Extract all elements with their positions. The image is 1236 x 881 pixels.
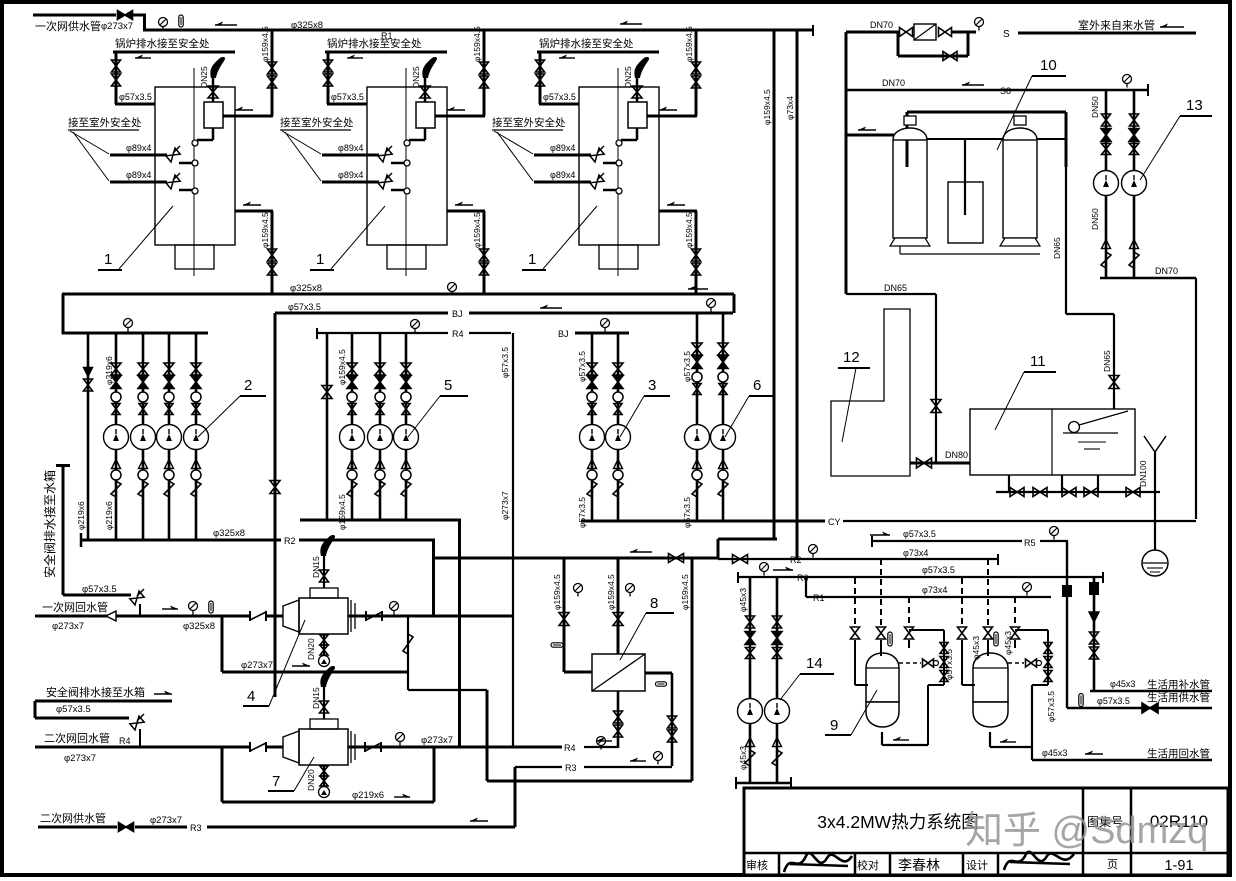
boiler 1 safety valve DN25 bowtie <box>632 86 642 98</box>
return header φ325x8 (row B) <box>62 293 734 296</box>
boiler 1 blowdown valve upper <box>112 60 121 72</box>
boiler 1 blowdown flow arrow <box>347 57 363 59</box>
boiler 1 node relief lower <box>192 188 198 194</box>
gauge on row B <box>448 283 457 292</box>
start elbow R1 <box>805 577 807 597</box>
svg-text:φ159x4.5: φ159x4.5 <box>684 212 694 248</box>
jet pump unit 4 DN15 valve <box>320 570 329 582</box>
pump column inlet valve small <box>112 404 120 415</box>
svg-text:φ45x3: φ45x3 <box>1003 631 1013 655</box>
boiler 1 safety valve DN25 bowtie <box>420 86 430 98</box>
pump column ball valve <box>718 372 728 382</box>
tank 9B dome base line <box>973 667 1008 669</box>
discharge header R2 continues <box>299 539 435 542</box>
boiler 1 safety discharge flame flag <box>210 57 225 78</box>
soft water pump 13-2 column <box>1133 90 1136 278</box>
boiler 1 relief outlet pipe φ89x4 upper <box>534 154 591 157</box>
row R5 <box>872 540 1022 542</box>
pump outlet angle relief <box>191 481 201 497</box>
binding tick marks on left edge <box>0 8 4 28</box>
row R2 to softened water tanks <box>718 558 998 560</box>
boiler 1 downcomer valve upper <box>268 249 277 261</box>
softener inner manifold <box>907 138 1066 140</box>
pipe 一次网回水管 row <box>35 615 249 618</box>
row 539 from long vertical <box>718 538 777 541</box>
svg-text:φ159x4.5: φ159x4.5 <box>762 89 772 125</box>
unit 4 outlet pipe <box>348 615 513 618</box>
jet pump unit 7 DN20 drain <box>323 765 325 787</box>
pump outlet angle relief <box>164 481 174 497</box>
boiler 1 lower outlet arrow <box>667 204 685 206</box>
boiler 1 relief outlet pipe φ89x4 upper <box>322 154 379 157</box>
header CY make-up discharge <box>581 520 825 523</box>
boiler 1 blowdown flow arrow <box>559 57 575 59</box>
pump group 2 suction header <box>62 332 208 335</box>
svg-text:8: 8 <box>650 595 658 612</box>
svg-text:φ159x4.5: φ159x4.5 <box>260 26 270 62</box>
pump column inlet valve small <box>376 404 384 415</box>
svg-text:φ159x4.5: φ159x4.5 <box>606 574 616 610</box>
row to fill riser <box>1066 313 1114 315</box>
tank 9A right bypass loop <box>909 629 944 631</box>
pump column pipe <box>617 333 620 521</box>
boiler 1 node relief upper <box>404 160 410 166</box>
svg-text:DN50: DN50 <box>1090 208 1100 230</box>
flow arrow row 558 <box>630 551 652 553</box>
boiler 1 steam outlet pipe to riser <box>435 115 485 118</box>
reducer box with diagonal <box>914 24 936 40</box>
boiler 1 node on centerline upper <box>192 140 198 146</box>
pump column ball valve <box>191 392 201 402</box>
pump <box>157 425 182 450</box>
tank group 9 drop columns (dashed) from headers <box>854 578 856 625</box>
row DN80 to tank 11 <box>910 462 970 465</box>
boiler 1 blowdown valve lower <box>536 74 545 86</box>
pump outlet cone <box>588 460 597 469</box>
pipe 生活用回水管 <box>1032 759 1212 762</box>
svg-text:φ57x3.5: φ57x3.5 <box>331 92 364 102</box>
boiler 1 drum valve box <box>204 102 223 128</box>
pump outlet ball check <box>111 470 121 480</box>
boiler 1 downcomer valve lower <box>692 263 701 275</box>
long vertical pipe φ73x4 from header R1 <box>796 30 799 559</box>
boiler 1 outlet flow arrow <box>659 109 677 111</box>
boiler 1 blowdown pipe top <box>113 51 235 54</box>
pump <box>394 425 419 450</box>
boiler 1 blowdown flow arrow <box>135 57 151 59</box>
row 690 <box>408 689 487 691</box>
pump column ball valve <box>347 392 357 402</box>
svg-text:φ159x4.5: φ159x4.5 <box>552 574 562 610</box>
pump outlet cone <box>376 460 385 469</box>
row B left drop to pump suction header <box>62 294 65 334</box>
jet pump unit 4 outlet flange <box>350 600 352 632</box>
svg-text:5: 5 <box>444 377 452 394</box>
tank 9B inlet column into dome <box>987 640 989 656</box>
svg-text:φ57x3.5: φ57x3.5 <box>119 92 152 102</box>
svg-text:二次网供水管: 二次网供水管 <box>40 811 106 825</box>
valve fill riser <box>1109 376 1119 389</box>
row R6 <box>738 576 1103 578</box>
gauge row R6 <box>760 563 769 572</box>
boiler 1 lower outlet pipe <box>447 210 485 213</box>
boiler 1 node relief upper <box>616 160 622 166</box>
check valve before unit 7 <box>249 742 251 752</box>
boiler 1 lower outlet arrow <box>243 204 261 206</box>
riser 487 row690 to row781 <box>486 690 489 781</box>
pipe 一次网供水管 (primary network supply) <box>33 14 116 17</box>
boiler 1 riser valve lower <box>268 76 277 88</box>
riser to 生活用补水管 <box>1093 577 1096 691</box>
svg-text:φ159x4.5: φ159x4.5 <box>472 26 482 62</box>
svg-text:9: 9 <box>830 717 838 734</box>
flow arrow tank 9A outlet <box>893 739 909 741</box>
svg-text:φ159x4.5: φ159x4.5 <box>337 349 347 385</box>
svg-text:φ273x7: φ273x7 <box>500 491 510 520</box>
pipe 二次网回水管 row <box>35 746 249 749</box>
gauge after unit 7 <box>396 733 405 742</box>
valve riser left <box>559 613 569 626</box>
pump column ball valve <box>111 392 121 402</box>
boiler 1 steam outlet pipe to riser <box>223 115 273 118</box>
wire supply to header R1 <box>133 14 146 17</box>
secondary supply long run <box>207 826 515 829</box>
jet pump unit 4 drain funnel <box>319 656 330 667</box>
jet pump unit 4 top chamber <box>310 588 338 598</box>
svg-text:4: 4 <box>247 688 255 705</box>
bottom row cells <box>778 853 781 875</box>
life water pump 14-2 column <box>776 577 779 783</box>
pump column ball valve <box>692 372 702 382</box>
svg-text:1: 1 <box>104 251 112 268</box>
boiler 1 internal pipe from valve box <box>636 128 639 140</box>
svg-text:φ325x8: φ325x8 <box>213 528 245 539</box>
svg-text:安全阀排水接至水箱: 安全阀排水接至水箱 <box>42 470 57 578</box>
svg-text:12: 12 <box>843 349 860 366</box>
flow arrow on header R1 <box>215 24 237 26</box>
pump column inlet valve open <box>164 363 174 375</box>
gauge riser middle <box>626 584 635 593</box>
pump column pipe <box>591 333 594 521</box>
pump outlet cone <box>139 460 148 469</box>
tank 9B left side inlet elbow <box>961 640 963 685</box>
boiler 1 downcomer valve upper <box>692 249 701 261</box>
row R4 (secondary return header) <box>317 332 448 334</box>
svg-text:生活用回水管: 生活用回水管 <box>1147 747 1210 760</box>
svg-text:DN100: DN100 <box>1138 460 1148 487</box>
svg-text:φ73x4: φ73x4 <box>922 585 947 595</box>
pump outlet cone <box>693 460 702 469</box>
pump outlet angle relief <box>138 481 148 497</box>
group 5 bypass column <box>326 333 329 520</box>
pump outlet cone <box>112 460 121 469</box>
valve on drop column x881 <box>877 627 886 639</box>
pump column pipe <box>351 333 354 520</box>
svg-text:1: 1 <box>316 251 324 268</box>
softener tank A skirt <box>890 238 930 246</box>
boiler 1 node on centerline upper <box>404 140 410 146</box>
reducer outlet valve <box>939 28 952 37</box>
svg-text:φ89x4: φ89x4 <box>338 170 363 180</box>
valves bottom drop <box>614 711 623 723</box>
svg-text:R2: R2 <box>790 555 802 565</box>
pump outlet ball check <box>613 470 623 480</box>
right long drop from pumps 13 <box>1195 278 1197 519</box>
svg-text:R3: R3 <box>565 763 577 773</box>
svg-text:φ57x3.5: φ57x3.5 <box>56 704 91 715</box>
boiler 1 riser valve upper <box>692 62 701 74</box>
flow arrow secondary supply <box>470 820 488 822</box>
svg-text:φ273x7: φ273x7 <box>241 660 273 671</box>
pumps 14 bottom header <box>736 782 791 785</box>
pump 14-1 <box>738 699 763 724</box>
gauge after reducer <box>975 18 984 27</box>
tick at left end of discharge header <box>80 533 83 547</box>
boiler 1 internal pipe from valve box <box>212 128 215 140</box>
boiler 1 relief connect pipe upper <box>391 162 404 165</box>
boiler 1 bottom flue notch <box>387 245 426 269</box>
boiler 1 internal pipe from valve box <box>424 128 427 140</box>
boiler 1 shell <box>155 87 235 245</box>
pump <box>104 425 129 450</box>
valve on row 558 <box>669 554 684 563</box>
pipe 生活用补水管 <box>1090 690 1212 693</box>
flow arrow bypass 7 <box>394 796 410 798</box>
svg-text:φ159x4.5: φ159x4.5 <box>680 574 690 610</box>
pump outlet ball check <box>347 470 357 480</box>
svg-text:CY: CY <box>828 517 841 527</box>
pump column inlet valve filled <box>587 376 597 389</box>
svg-text:φ159x4.5: φ159x4.5 <box>337 494 347 530</box>
svg-text:10: 10 <box>1040 57 1057 74</box>
pump outlet ball check <box>587 470 597 480</box>
unit 4 bypass left drop <box>221 616 224 672</box>
valve on row R2 right <box>733 555 748 564</box>
svg-text:φ57x3.5: φ57x3.5 <box>922 565 955 575</box>
pump column ball valve <box>138 392 148 402</box>
boiler 1 downcomer to return header <box>695 211 698 294</box>
svg-text:接至室外安全处: 接至室外安全处 <box>492 116 566 129</box>
pump column inlet valve filled <box>347 376 357 389</box>
life water pump 14-1 column <box>749 577 752 783</box>
svg-text:审核: 审核 <box>746 858 768 872</box>
boiler 1 safety valve DN25 riser <box>212 78 215 102</box>
pump outlet cone <box>192 460 201 469</box>
pump outlet angle relief <box>375 481 385 497</box>
flow arrow city water <box>1160 26 1184 28</box>
thermometer right drop <box>656 682 667 686</box>
svg-text:φ57x3.5: φ57x3.5 <box>577 351 587 382</box>
pump outlet ball check <box>692 470 702 480</box>
svg-text:知乎 @Sdmzq: 知乎 @Sdmzq <box>965 810 1208 852</box>
pump outlet cone <box>614 460 623 469</box>
boiler 1 relief safety valve upper <box>590 148 604 162</box>
svg-text:R4: R4 <box>564 743 576 753</box>
HX left elbow <box>564 671 592 674</box>
arrow on it <box>154 693 172 695</box>
arrow softener feed <box>858 129 876 131</box>
tank 9A dome base line <box>866 667 899 669</box>
flow arrow R6 <box>773 569 793 571</box>
boiler 1 centerline <box>193 68 195 276</box>
boiler 1 blowdown pipe top <box>325 51 447 54</box>
svg-text:S8: S8 <box>1000 86 1011 96</box>
svg-text:DN80: DN80 <box>945 450 968 460</box>
svg-text:φ45x3: φ45x3 <box>738 588 748 612</box>
valve on drop column x962 <box>958 627 967 639</box>
boiler 1 shell <box>367 87 447 245</box>
boiler 1 relief safety valve upper <box>166 148 180 162</box>
boiler 1 riser valve lower <box>480 76 489 88</box>
boiler 1 relief connect pipe lower <box>179 189 192 192</box>
pump outlet cone <box>719 460 728 469</box>
pump <box>580 425 605 450</box>
svg-text:φ325x8: φ325x8 <box>291 20 323 31</box>
svg-text:14: 14 <box>806 655 823 672</box>
floor drain <box>1142 550 1168 576</box>
svg-text:6: 6 <box>753 377 761 394</box>
pump column inlet valve small <box>614 404 622 415</box>
boiler 1 outlet flow arrow <box>447 109 465 111</box>
boiler 1 downcomer to return header <box>483 211 486 294</box>
gauge on header R1 <box>159 18 168 27</box>
flow arrow R5 <box>870 534 890 536</box>
reducer bypass loop <box>897 32 900 56</box>
thermometer riser left <box>551 643 563 647</box>
boiler 1 downcomer valve upper <box>480 249 489 261</box>
pump column inlet valve filled <box>164 376 174 389</box>
pump 14-2 <box>765 699 790 724</box>
jet pump unit 7 inlet cone <box>283 731 299 763</box>
pump column inlet valve filled <box>718 356 728 369</box>
boiler 1 centerline <box>405 68 407 276</box>
pump column inlet valve filled <box>692 356 702 369</box>
boiler 1 shell <box>579 87 659 245</box>
tank 9B right bypass loop <box>1015 629 1048 631</box>
pump outlet ball check <box>164 470 174 480</box>
pump column inlet valve open <box>347 363 357 375</box>
pump column inlet valve open <box>718 343 728 355</box>
gauge group 6 suction <box>707 299 716 308</box>
jet pump unit 4 inlet cone <box>283 600 299 632</box>
pump column inlet valve open <box>375 363 385 375</box>
svg-text:页: 页 <box>1107 859 1118 871</box>
valve on secondary supply <box>119 823 134 832</box>
unit 7 bypass right riser <box>433 747 436 802</box>
flow arrow S8 <box>962 84 984 86</box>
pump outlet cone <box>348 460 357 469</box>
header R1 horizontal main <box>143 29 813 32</box>
pump column inlet valve small <box>588 404 596 415</box>
jet pump unit 7 outlet flange <box>350 731 352 763</box>
boiler 1 blowdown pipe into shell <box>327 103 367 106</box>
pump column pipe <box>405 333 408 520</box>
signature 1 <box>784 853 852 872</box>
svg-text:φ45x3: φ45x3 <box>1110 679 1135 689</box>
pump outlet angle relief <box>718 481 728 497</box>
svg-text:φ57x3.5: φ57x3.5 <box>1097 696 1130 706</box>
pump 13-1 <box>1094 171 1119 196</box>
unit 7 outlet pipe <box>348 746 562 749</box>
svg-text:安全阀排水接至水箱: 安全阀排水接至水箱 <box>46 685 145 699</box>
gauge group 3 suction <box>601 319 610 328</box>
svg-text:一次网回水管: 一次网回水管 <box>42 600 108 614</box>
svg-text:φ57x3.5: φ57x3.5 <box>82 584 117 595</box>
boiler 1 relief safety valve lower <box>378 175 392 189</box>
svg-text:φ57x3.5: φ57x3.5 <box>1046 691 1056 722</box>
softener tank B dome <box>1003 128 1037 140</box>
svg-text:李春林: 李春林 <box>898 857 940 873</box>
boiler 1 riser valve lower <box>692 76 701 88</box>
svg-text:φ159x4.5: φ159x4.5 <box>472 212 482 248</box>
drop to DN80 row <box>935 294 937 463</box>
safety relief valve on secondary return <box>130 716 144 730</box>
svg-text:二次网回水管: 二次网回水管 <box>44 731 110 745</box>
svg-text:φ45x3: φ45x3 <box>738 746 748 770</box>
svg-text:生活用补水管: 生活用补水管 <box>1147 678 1210 691</box>
svg-text:φ219x6: φ219x6 <box>104 356 114 385</box>
pump column pipe <box>379 333 382 520</box>
tank 9A inlet column into dome <box>880 640 882 656</box>
safety drain pipe left margin <box>62 467 65 595</box>
tank 9A left side inlet elbow <box>854 640 856 685</box>
svg-text:φ219x6: φ219x6 <box>76 501 86 530</box>
pump outlet cone <box>165 460 174 469</box>
tank 9B bottom outlet <box>989 732 991 747</box>
row R1 life hot water <box>806 596 1051 598</box>
svg-text:φ57x3.5: φ57x3.5 <box>682 351 692 382</box>
boiler 1 riser valve upper <box>268 62 277 74</box>
city water inlet drop DN70 <box>845 32 848 294</box>
svg-text:φ89x4: φ89x4 <box>550 170 575 180</box>
svg-text:φ273x7: φ273x7 <box>150 815 182 826</box>
connector 718 between row539 and R2 row <box>717 539 720 559</box>
boiler 1 safety valve DN25 riser <box>424 78 427 102</box>
pump column ball valve <box>164 392 174 402</box>
valve DN80 <box>917 458 932 468</box>
pump outlet angle relief <box>613 481 623 497</box>
boiler 1 blowdown drop pipe <box>327 52 330 104</box>
header BJ (make-up) row <box>275 312 448 315</box>
heat exchanger 8 riser right φ159x4.5 <box>691 558 694 781</box>
valve on drop column x1015 <box>1011 627 1020 639</box>
mixed water riser x513 <box>512 333 514 747</box>
long vertical pipe φ159x4.5 from header R1 <box>773 30 776 539</box>
svg-text:一次网供水管: 一次网供水管 <box>35 19 101 33</box>
flow arrow R3 row <box>630 760 646 762</box>
pump column inlet valve open <box>587 363 597 375</box>
valve on drop column x988 <box>984 627 993 639</box>
svg-text:DN15: DN15 <box>311 556 321 578</box>
secondary return row right part to exchanger drop <box>584 746 618 748</box>
pump column inlet valve small <box>192 404 200 415</box>
flow arrow right part header R1 <box>620 23 642 25</box>
svg-text:φ325x8: φ325x8 <box>183 621 215 632</box>
pipe 室外来自来水管 <box>1018 32 1196 35</box>
jet pump unit 7 vent flame <box>320 666 335 687</box>
softener outlet drop <box>1065 167 1067 314</box>
water softener unit 10 frame <box>906 112 909 167</box>
pump column ball valve <box>587 392 597 402</box>
boiler 1 relief connect pipe upper <box>179 162 192 165</box>
svg-text:DN65: DN65 <box>884 283 907 293</box>
boiler 1 node on centerline upper <box>616 140 622 146</box>
valve on drop <box>931 400 941 413</box>
softener feed branch <box>846 134 895 137</box>
boiler 1 steam outlet pipe to riser <box>647 115 697 118</box>
pump column ball valve <box>401 392 411 402</box>
open arrow return row <box>106 611 116 621</box>
